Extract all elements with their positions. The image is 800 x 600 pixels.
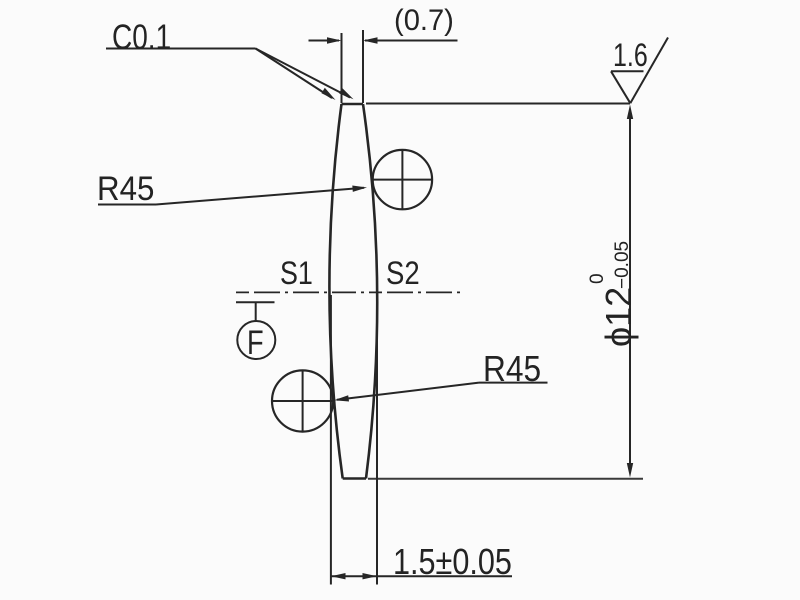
lens outline — [329, 104, 377, 479]
label C0.1 — [112, 18, 171, 58]
label F — [247, 324, 264, 363]
chamfer C0.1 leader — [106, 49, 354, 101]
svg-text:0: 0 — [587, 273, 608, 284]
frosted edge mark F — [236, 302, 275, 359]
surface test mark circle upper — [371, 150, 432, 210]
diameter 12 dimension line — [627, 105, 633, 478]
surface test mark circle lower — [272, 370, 334, 431]
label S2 — [386, 255, 420, 292]
radius R45 upper leader — [98, 186, 367, 205]
center thickness extension lines — [331, 295, 377, 585]
label (0.7) — [394, 4, 454, 38]
surface finish symbol 1.6 — [611, 38, 668, 104]
radius R45 lower leader — [334, 383, 548, 402]
dimension (0.7) lines — [309, 30, 458, 103]
label R45 lower — [483, 348, 541, 390]
svg-text:−0.05: −0.05 — [612, 241, 633, 289]
svg-text:ϕ12: ϕ12 — [598, 287, 639, 347]
label 1.5 +/- 0.05 — [393, 541, 512, 583]
label 1.6 — [613, 37, 648, 74]
label diameter 12 with tolerance — [587, 241, 639, 347]
optical axis centerline — [236, 291, 461, 293]
bottom extension line to diameter dimension — [368, 478, 643, 480]
label S1 — [280, 255, 313, 292]
top extension line to diameter dimension — [366, 103, 630, 105]
label R45 upper — [97, 170, 154, 209]
dimension 1.5 +/-0.05 line — [331, 573, 512, 579]
